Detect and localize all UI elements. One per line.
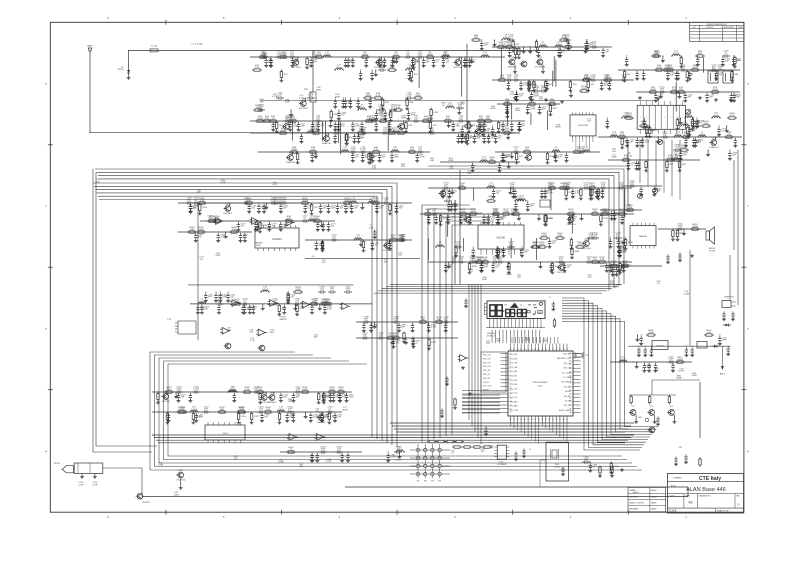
svg-text:4.7K: 4.7K bbox=[569, 211, 574, 213]
ground bbox=[684, 144, 688, 148]
ground bbox=[297, 128, 301, 132]
ground bbox=[497, 130, 501, 134]
capacitor C263 bbox=[243, 233, 246, 239]
capacitor C274 bbox=[301, 220, 304, 222]
capacitor C267 bbox=[399, 239, 402, 241]
resistor R84 bbox=[502, 103, 504, 105]
capacitor C131 bbox=[501, 153, 504, 159]
ground bbox=[548, 245, 552, 249]
resistor R48 bbox=[406, 98, 408, 100]
capacitor C169 bbox=[491, 127, 494, 133]
svg-text:560R: 560R bbox=[316, 89, 322, 91]
svg-text:560R: 560R bbox=[280, 130, 286, 132]
capacitor C171 bbox=[506, 109, 509, 115]
capacitor C148 bbox=[625, 57, 628, 63]
svg-text:33K: 33K bbox=[265, 118, 269, 120]
ground bbox=[569, 94, 573, 98]
wire rail bbox=[428, 261, 632, 263]
ground bbox=[656, 140, 660, 144]
capacitor C340 bbox=[346, 453, 349, 459]
regulator U52 bbox=[697, 342, 707, 349]
svg-text:150R: 150R bbox=[415, 95, 421, 97]
inductor bbox=[197, 302, 207, 303]
capacitor C9 bbox=[265, 58, 268, 64]
resistor R216 bbox=[668, 395, 670, 397]
ground bbox=[292, 399, 296, 403]
svg-text:4.7K: 4.7K bbox=[600, 259, 605, 261]
svg-text:10UH: 10UH bbox=[584, 77, 590, 79]
capacitor C58 bbox=[332, 132, 335, 134]
transistor Q11 bbox=[537, 59, 543, 65]
MCU left long pins bbox=[462, 389, 501, 391]
resistor R170 bbox=[232, 303, 234, 305]
op-amp bbox=[460, 355, 467, 362]
svg-text:SHEET 1 OF: SHEET 1 OF bbox=[717, 511, 729, 513]
capacitor C98 bbox=[559, 48, 562, 54]
ground bbox=[310, 459, 314, 463]
ground bbox=[277, 312, 281, 316]
ground bbox=[345, 142, 349, 146]
svg-text:P20_LCD: P20_LCD bbox=[510, 388, 518, 390]
resistor R210 bbox=[482, 446, 484, 448]
ground bbox=[243, 311, 247, 315]
capacitor C246 bbox=[382, 202, 385, 204]
resistor R60 bbox=[569, 80, 571, 82]
ground bbox=[482, 221, 486, 225]
capacitor C349 bbox=[650, 348, 653, 354]
svg-text:100R: 100R bbox=[692, 67, 698, 69]
capacitor C207 bbox=[450, 261, 453, 263]
svg-text:ALAN Base 446: ALAN Base 446 bbox=[686, 487, 726, 493]
capacitor C365 bbox=[666, 255, 669, 261]
svg-text:10K: 10K bbox=[322, 262, 326, 264]
ground bbox=[611, 273, 615, 277]
svg-text:2.2K: 2.2K bbox=[500, 77, 505, 79]
svg-text:560R: 560R bbox=[681, 147, 687, 149]
capacitor C196 bbox=[447, 215, 450, 221]
inductor bbox=[671, 54, 681, 56]
capacitor C109 bbox=[527, 81, 530, 87]
svg-text:K2214: K2214 bbox=[118, 69, 125, 71]
resistor R115 bbox=[565, 188, 567, 190]
inductor bbox=[357, 109, 367, 111]
capacitor C115 bbox=[715, 71, 718, 77]
capacitor C285 bbox=[271, 303, 274, 305]
ground bbox=[320, 224, 324, 228]
ground bbox=[381, 107, 385, 111]
ground bbox=[356, 105, 360, 109]
capacitor C240 bbox=[192, 202, 195, 204]
transistor Q19 bbox=[584, 241, 590, 247]
ground bbox=[319, 210, 323, 214]
svg-text:47P: 47P bbox=[334, 130, 338, 132]
ground bbox=[288, 128, 292, 132]
svg-text:47P: 47P bbox=[493, 259, 497, 261]
resistor R40 bbox=[371, 151, 373, 153]
ground bbox=[80, 475, 84, 479]
ground bbox=[194, 419, 198, 423]
svg-text:560R: 560R bbox=[342, 409, 348, 411]
capacitor C79 bbox=[371, 153, 374, 159]
ground bbox=[506, 136, 510, 140]
resistor R3 bbox=[314, 56, 316, 58]
switch SW5 bbox=[416, 456, 419, 459]
svg-text:560R: 560R bbox=[650, 89, 656, 91]
svg-text:10UH: 10UH bbox=[611, 134, 617, 136]
ground bbox=[464, 140, 468, 144]
capacitor C93 bbox=[501, 46, 504, 48]
ground bbox=[678, 258, 682, 262]
wire bbox=[500, 48, 502, 78]
capacitor C86 bbox=[405, 97, 408, 99]
resistor R73 bbox=[710, 91, 712, 93]
ground bbox=[536, 54, 540, 58]
ground bbox=[652, 193, 656, 197]
capacitor C311 bbox=[233, 393, 236, 399]
ground bbox=[353, 140, 357, 144]
svg-text:33K: 33K bbox=[314, 337, 318, 339]
resistor R75 bbox=[572, 151, 574, 153]
capacitor C370 bbox=[411, 337, 414, 343]
svg-text:1UF: 1UF bbox=[282, 200, 287, 202]
svg-text:10UH: 10UH bbox=[199, 301, 205, 303]
svg-text:UPD75P308GF: UPD75P308GF bbox=[532, 382, 548, 384]
capacitor C165 bbox=[515, 92, 518, 98]
ground bbox=[351, 159, 355, 163]
ground bbox=[506, 265, 510, 269]
svg-text:47P: 47P bbox=[616, 235, 620, 237]
capacitor C133 bbox=[635, 161, 638, 167]
resistor R79 bbox=[665, 159, 667, 161]
svg-text:68K: 68K bbox=[315, 218, 319, 220]
ground bbox=[321, 249, 325, 253]
wire rail bbox=[280, 451, 362, 453]
resistor R129 bbox=[617, 213, 619, 215]
svg-text:PLL_SCAN: PLL_SCAN bbox=[562, 371, 572, 374]
resistor R44 bbox=[370, 152, 372, 154]
resistor R55 bbox=[497, 79, 499, 81]
ground bbox=[515, 161, 519, 165]
ground bbox=[370, 77, 374, 81]
ground bbox=[527, 89, 531, 93]
resistor R119 bbox=[423, 213, 425, 215]
wire rail bbox=[600, 209, 642, 211]
wire bbox=[511, 103, 513, 120]
transistor Q7 bbox=[288, 155, 294, 161]
bus right of MCU bbox=[562, 298, 640, 450]
MCU left label box bbox=[481, 352, 506, 392]
ground bbox=[204, 299, 208, 303]
svg-text:CE_IN: CE_IN bbox=[483, 382, 489, 384]
svg-text:560R: 560R bbox=[393, 335, 399, 337]
svg-text:22P: 22P bbox=[278, 95, 282, 97]
capacitor C324 bbox=[286, 411, 289, 413]
capacitor C379 bbox=[484, 427, 487, 433]
svg-text:470P: 470P bbox=[590, 77, 596, 79]
resistor R107 bbox=[687, 126, 689, 128]
resistor R195 bbox=[328, 412, 330, 414]
svg-text:4.7UF: 4.7UF bbox=[406, 95, 413, 97]
capacitor C269 bbox=[315, 241, 318, 247]
capacitor C256 bbox=[395, 204, 398, 210]
resistor R138 bbox=[597, 261, 599, 263]
ground bbox=[520, 254, 524, 257]
capacitor C6 bbox=[310, 56, 313, 58]
capacitor C122 bbox=[732, 93, 735, 99]
resistor R2 bbox=[278, 56, 280, 58]
svg-text:4.7K: 4.7K bbox=[372, 168, 377, 170]
ground bbox=[674, 462, 678, 466]
svg-text:17: 17 bbox=[510, 412, 512, 414]
long wire horizontal D bbox=[428, 165, 630, 167]
capacitor C161 bbox=[532, 90, 535, 92]
title block bbox=[667, 474, 743, 513]
resistor R82 bbox=[645, 160, 647, 162]
ground bbox=[479, 269, 483, 273]
ground bbox=[682, 232, 686, 236]
resistor R165 bbox=[207, 220, 209, 222]
wire rail bbox=[428, 187, 632, 189]
wire bbox=[536, 238, 538, 260]
capacitor C26 bbox=[365, 58, 368, 64]
capacitor C94 bbox=[590, 46, 593, 48]
capacitor C363 bbox=[639, 187, 642, 193]
resistor R53 bbox=[515, 47, 517, 49]
svg-text:43: 43 bbox=[527, 349, 529, 351]
svg-text:47K: 47K bbox=[604, 211, 608, 213]
ground bbox=[388, 128, 392, 132]
wire rail bbox=[356, 337, 458, 339]
ground bbox=[303, 210, 307, 214]
capacitor C254 bbox=[336, 204, 339, 210]
capacitor C217 bbox=[622, 263, 625, 269]
wire rail bbox=[618, 69, 740, 71]
capacitor C52 bbox=[375, 122, 378, 128]
inductor bbox=[445, 107, 455, 109]
capacitor C313 bbox=[279, 393, 282, 399]
svg-text:10K: 10K bbox=[727, 134, 731, 136]
svg-text:10UH: 10UH bbox=[540, 44, 546, 46]
ground bbox=[322, 401, 326, 405]
inductor bbox=[367, 202, 377, 203]
svg-text:2SA1015: 2SA1015 bbox=[322, 142, 332, 145]
svg-text:2.2K: 2.2K bbox=[694, 143, 699, 145]
ground bbox=[563, 269, 567, 273]
ground bbox=[517, 128, 521, 132]
ground bbox=[369, 161, 373, 165]
svg-text:4.7UF: 4.7UF bbox=[592, 235, 599, 237]
svg-text:F1 4A: F1 4A bbox=[151, 45, 157, 48]
svg-text:10P: 10P bbox=[432, 211, 436, 213]
ground bbox=[522, 50, 526, 54]
ground bbox=[518, 128, 522, 132]
svg-text:4.7K: 4.7K bbox=[240, 409, 245, 411]
inductor bbox=[228, 391, 238, 393]
svg-text:2SC2714: 2SC2714 bbox=[176, 480, 186, 482]
transistor Q20 bbox=[225, 206, 231, 212]
svg-text:48: 48 bbox=[570, 412, 572, 414]
capacitor C212 bbox=[496, 261, 499, 263]
ground bbox=[264, 64, 268, 68]
ground bbox=[310, 311, 314, 315]
svg-text:33K: 33K bbox=[525, 339, 529, 341]
op-amp bbox=[303, 301, 310, 308]
svg-text:33P: 33P bbox=[660, 89, 664, 91]
svg-text:33P: 33P bbox=[363, 335, 367, 337]
resistor R123 bbox=[501, 213, 503, 215]
ground bbox=[348, 105, 352, 109]
svg-text:10UH: 10UH bbox=[191, 409, 197, 411]
ground bbox=[731, 317, 735, 321]
capacitor C308 bbox=[192, 391, 195, 393]
svg-text:10UH: 10UH bbox=[407, 67, 413, 69]
svg-text:4.7UF: 4.7UF bbox=[547, 193, 553, 195]
capacitor C216 bbox=[617, 263, 620, 269]
ground bbox=[331, 399, 335, 403]
resistor R56 bbox=[581, 79, 583, 81]
resistor R162 bbox=[396, 239, 398, 241]
MCU bottom wires bbox=[510, 424, 512, 427]
resistor R68 bbox=[731, 70, 733, 72]
capacitor C4 bbox=[281, 56, 284, 58]
ground bbox=[286, 301, 290, 305]
svg-text:10P: 10P bbox=[587, 277, 591, 279]
ground bbox=[189, 210, 193, 214]
capacitor C168 bbox=[481, 127, 484, 133]
capacitor C270 bbox=[388, 241, 391, 247]
ground bbox=[645, 135, 649, 139]
capacitor C307 bbox=[175, 391, 178, 393]
svg-text:KTC3880S: KTC3880S bbox=[382, 250, 393, 252]
capacitor C398 bbox=[728, 151, 731, 157]
svg-text:P22_LCD: P22_LCD bbox=[510, 397, 518, 399]
capacitor C258 bbox=[262, 204, 265, 210]
wire bbox=[555, 60, 557, 87]
wire bbox=[292, 121, 294, 141]
capacitor C134 bbox=[637, 161, 640, 167]
capacitor C304 bbox=[444, 323, 447, 329]
svg-text:LED: LED bbox=[638, 417, 642, 419]
ground bbox=[596, 197, 600, 201]
ground bbox=[616, 245, 620, 249]
ground bbox=[279, 79, 283, 83]
capacitor C276 bbox=[279, 222, 282, 228]
ground bbox=[634, 420, 638, 424]
capacitor C24 bbox=[464, 58, 467, 64]
svg-text:22P: 22P bbox=[337, 449, 341, 451]
svg-text:4.7K: 4.7K bbox=[617, 274, 622, 276]
diode D1 bbox=[711, 345, 714, 347]
svg-text:4.7K: 4.7K bbox=[654, 370, 659, 372]
ground bbox=[648, 135, 652, 139]
resistor R99 bbox=[621, 137, 623, 139]
svg-text:4.7K: 4.7K bbox=[376, 95, 381, 97]
ground bbox=[656, 97, 660, 101]
capacitor C191 bbox=[596, 189, 599, 195]
resistor R204 bbox=[436, 441, 438, 443]
capacitor C316 bbox=[345, 393, 348, 399]
resistor R31 bbox=[356, 132, 358, 134]
resistor R120 bbox=[458, 213, 460, 215]
capacitor C90 bbox=[357, 99, 360, 105]
ground bbox=[404, 341, 408, 345]
wire rail bbox=[492, 79, 634, 81]
capacitor C80 bbox=[361, 153, 364, 159]
svg-text:STB_IN: STB_IN bbox=[483, 378, 490, 380]
capacitor C296 bbox=[248, 305, 251, 311]
capacitor C400 bbox=[328, 291, 331, 293]
capacitor C210 bbox=[470, 261, 473, 263]
ground bbox=[322, 399, 326, 403]
ground bbox=[595, 195, 599, 199]
svg-text:220P: 220P bbox=[349, 397, 354, 399]
resistor R200 bbox=[166, 412, 168, 414]
svg-text:4.7K: 4.7K bbox=[730, 115, 735, 117]
svg-text:31: 31 bbox=[556, 419, 558, 421]
ground bbox=[482, 140, 486, 144]
svg-text:33P: 33P bbox=[566, 185, 570, 187]
ground bbox=[535, 49, 539, 53]
capacitor C397 bbox=[679, 151, 682, 157]
svg-text:42: 42 bbox=[531, 349, 533, 351]
capacitor C261 bbox=[194, 233, 197, 239]
transistor Q25 bbox=[269, 395, 275, 401]
capacitor C407 bbox=[454, 246, 457, 248]
capacitor C62 bbox=[333, 134, 336, 140]
capacitor C273 bbox=[206, 220, 209, 222]
opamp row 1 bbox=[198, 202, 302, 204]
bottom rails bbox=[345, 486, 688, 488]
ground bbox=[733, 144, 737, 148]
inductor bbox=[435, 246, 445, 248]
ground bbox=[564, 197, 568, 201]
capacitor C305 bbox=[427, 323, 430, 329]
capacitor C112 bbox=[710, 69, 713, 71]
inductor bbox=[307, 220, 317, 221]
ground bbox=[402, 340, 406, 344]
svg-text:CLK_OUT: CLK_OUT bbox=[483, 386, 493, 388]
svg-text:68K: 68K bbox=[490, 159, 494, 161]
ground bbox=[441, 64, 445, 68]
ground bbox=[422, 64, 426, 68]
capacitor C2 bbox=[261, 56, 264, 58]
svg-text:100R: 100R bbox=[692, 226, 698, 228]
svg-text:KA22241: KA22241 bbox=[272, 238, 282, 241]
ground bbox=[671, 369, 675, 373]
resistor R241 bbox=[531, 246, 533, 248]
resistor R32 bbox=[387, 132, 389, 134]
border frame bbox=[50, 22, 744, 512]
ground bbox=[345, 399, 349, 403]
resistor R134 bbox=[474, 261, 476, 263]
ground bbox=[501, 159, 505, 163]
svg-text:100R: 100R bbox=[626, 115, 632, 117]
svg-text:BA5406: BA5406 bbox=[639, 235, 648, 238]
resistor R94 bbox=[734, 56, 736, 58]
svg-text:2SC1815: 2SC1815 bbox=[291, 67, 301, 69]
resistor R232 bbox=[330, 110, 332, 112]
inductor bbox=[554, 45, 564, 47]
capacitor C252 bbox=[304, 204, 307, 210]
capacitor C181 bbox=[617, 187, 620, 189]
ground bbox=[599, 223, 603, 227]
capacitor C302 bbox=[369, 323, 372, 329]
ground bbox=[496, 256, 500, 260]
capacitor C373 bbox=[412, 339, 415, 345]
ground bbox=[543, 223, 547, 227]
svg-text:4.7UF: 4.7UF bbox=[78, 484, 84, 486]
svg-text:150R: 150R bbox=[515, 110, 521, 112]
